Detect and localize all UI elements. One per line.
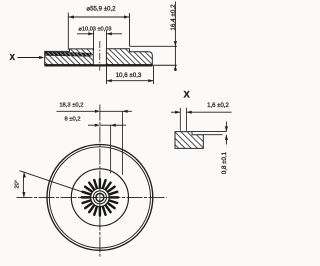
front view: center hole — [96, 193, 104, 201]
dimension line for 55,9 with arrows — [68, 16, 129, 18]
section view: disc body right of hole with boss step (hatched) — [106, 49, 152, 65]
front view: horizontal centerline — [17, 196, 167, 198]
extension line for 18,3 radius — [121, 111, 123, 175]
front view: knurl serration spokes — [82, 179, 118, 215]
svg-text:X: X — [183, 89, 190, 100]
detail X: lip top surface extension line — [192, 131, 226, 133]
extension line for 8 radius — [110, 125, 112, 173]
front view: knurl ring outer circle — [91, 188, 110, 207]
section view: dark friction band on left rim — [45, 52, 91, 57]
dimension line 8 outside arrows — [88, 124, 96, 126]
dimension line 16,4 vertical with outside arrows — [174, 2, 176, 72]
svg-text:⌀55,9 ±0,2: ⌀55,9 ±0,2 — [86, 5, 116, 12]
front view: boss circle — [71, 169, 128, 226]
svg-text:8 ±0,2: 8 ±0,2 — [64, 117, 80, 123]
dimension line 1,6 outside arrows — [171, 111, 180, 113]
dimension line 10,03 outside arrows — [77, 33, 94, 35]
front view: inner rim circle — [49, 147, 150, 248]
svg-text:20°: 20° — [15, 180, 21, 188]
angle 20 degree ray — [20, 171, 85, 193]
extension of bottom edge to 16,4 dimension — [153, 64, 177, 66]
extension line left for 55,9 — [67, 13, 69, 50]
extension lines for 1,6 lip width — [179, 108, 181, 131]
svg-text:X: X — [9, 53, 15, 62]
svg-text:16,4 ±0,2: 16,4 ±0,2 — [170, 4, 177, 31]
hole centerline — [99, 41, 101, 71]
dimension line 10,6 with inside arrows — [107, 80, 154, 82]
angle 20 degree dimension arc with arrows — [22, 172, 25, 197]
front view: vertical centerline — [99, 105, 101, 257]
pointer X arrow to rim — [18, 57, 40, 59]
svg-text:0,8 ±0,1: 0,8 ±0,1 — [221, 151, 228, 174]
dimension line 18,3 outside arrows — [57, 110, 96, 112]
svg-text:18,3 ±0,2: 18,3 ±0,2 — [59, 103, 83, 109]
detail X: rim block with lip (hatched) — [175, 132, 203, 149]
front view: outer circle of disc — [47, 145, 153, 251]
extension line below hole right wall — [106, 66, 108, 84]
extension line below disc right edge — [153, 66, 155, 84]
section view: disc body left rim (hatched) — [45, 49, 94, 65]
svg-text:10,6 ±0,3: 10,6 ±0,3 — [116, 72, 142, 79]
front view: knurl ring inner circle — [93, 191, 106, 204]
section view: bottom edge thick line — [44, 64, 152, 66]
extension lines for hole 10,03 — [93, 31, 95, 51]
detail X: lower surface extension line — [203, 134, 222, 136]
svg-text:1,6 ±0,2: 1,6 ±0,2 — [207, 103, 229, 109]
dimension 0,8 vertical line with outside arrows — [225, 122, 227, 132]
extension line right for 55,9 / 16,4 (L-shape) — [129, 13, 131, 46]
